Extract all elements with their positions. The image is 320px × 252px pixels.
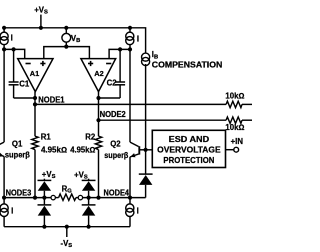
resistor RG bbox=[55, 185, 78, 201]
node C2 top junction bbox=[118, 47, 122, 51]
op-amp A1 bbox=[18, 59, 53, 92]
svg-text:10kΩ: 10kΩ bbox=[225, 123, 244, 132]
node rail VB bbox=[64, 26, 68, 30]
svg-text:superβ: superβ bbox=[104, 151, 128, 160]
svg-text:COMPENSATION: COMPENSATION bbox=[152, 60, 223, 69]
terminal RG left bbox=[51, 195, 55, 199]
current source I right-top bbox=[126, 32, 139, 45]
svg-text:NODE4: NODE4 bbox=[104, 189, 130, 198]
svg-text:+IN: +IN bbox=[231, 137, 244, 146]
current source I bottom-left bbox=[0, 198, 13, 227]
node Q1 collector junction bbox=[2, 47, 6, 51]
svg-text:I: I bbox=[11, 206, 13, 215]
node C2 bottom junction bbox=[96, 96, 100, 100]
resistor R2 bbox=[70, 132, 102, 154]
wire +Vs tick bbox=[40, 15, 42, 28]
svg-text:Q2: Q2 bbox=[110, 139, 121, 148]
svg-text:Q1: Q1 bbox=[12, 139, 23, 148]
wire Q2 emitter column bbox=[129, 157, 131, 198]
diode D3 (RG right to +Vs) bbox=[82, 179, 96, 205]
transistor Q2 bbox=[104, 139, 152, 160]
svg-text:I: I bbox=[137, 206, 139, 215]
svg-text:A1: A1 bbox=[30, 69, 39, 78]
node C1 bottom junction bbox=[33, 96, 37, 100]
ESD and overvoltage protection block bbox=[152, 130, 225, 167]
wire top supply rail bbox=[4, 28, 146, 54]
svg-text:-VS: -VS bbox=[61, 239, 73, 249]
capacitor C1 bbox=[9, 80, 30, 89]
node rail D4 bbox=[87, 225, 91, 229]
svg-text:4.95kΩ: 4.95kΩ bbox=[41, 146, 67, 155]
op-amp A2 bbox=[81, 59, 116, 92]
wire C2 branch bbox=[99, 49, 121, 98]
node +VS label right diode string bbox=[74, 170, 88, 180]
wire A1 output column bbox=[34, 92, 36, 198]
svg-text:superβ: superβ bbox=[5, 151, 30, 160]
wire A2 output column bbox=[98, 92, 100, 198]
svg-text:C2: C2 bbox=[107, 79, 118, 88]
current source I bottom-middle bbox=[126, 198, 139, 227]
wire NODE2 row bbox=[99, 119, 253, 121]
diode D1 (RG left to +Vs) bbox=[38, 179, 52, 205]
wire A2 inverting input bbox=[109, 49, 130, 58]
wire NODE4 row bbox=[83, 197, 146, 199]
node +VS top label bbox=[34, 5, 48, 15]
node NODE1 junction bbox=[33, 102, 37, 106]
node -VS label bbox=[61, 239, 73, 249]
node NODE2 junction bbox=[96, 118, 100, 122]
node D1 anode junction bbox=[42, 196, 46, 200]
svg-text:VB: VB bbox=[71, 34, 80, 44]
node C1 top junction bbox=[12, 47, 16, 51]
svg-text:ESD AND: ESD AND bbox=[169, 135, 210, 144]
source VB bbox=[62, 33, 80, 44]
node R2 bottom junction bbox=[96, 196, 100, 200]
wire right column upper bbox=[129, 28, 131, 142]
resistor 10k upper bbox=[225, 92, 244, 108]
transistor Q1 (clipped at left edge) bbox=[0, 139, 30, 159]
wire Q1 emitter column bbox=[3, 156, 5, 197]
svg-text:PROTECTION: PROTECTION bbox=[163, 156, 214, 165]
svg-text:I: I bbox=[11, 34, 13, 43]
node NODE4 bbox=[104, 189, 130, 198]
wire IB column down to Q2 base node bbox=[145, 64, 147, 150]
node R1 bottom junction bbox=[33, 196, 37, 200]
wire -Vs tick bbox=[66, 227, 68, 237]
node rail -Vs bbox=[65, 225, 69, 229]
node Q2 collector junction bbox=[128, 47, 132, 51]
node Q2 base junction bbox=[144, 148, 148, 152]
current source IB compensation bbox=[142, 50, 223, 69]
svg-text:IB: IB bbox=[152, 50, 158, 60]
node +VS label left diode string bbox=[42, 170, 56, 180]
wire +IN stub bbox=[226, 149, 234, 151]
wire noninverting inputs bbox=[44, 47, 90, 59]
capacitor C2 bbox=[107, 79, 126, 88]
wire bottom supply rail bbox=[4, 226, 130, 228]
wire left column (rail to Q1 collector) bbox=[3, 28, 5, 142]
terminal RG right bbox=[78, 195, 82, 199]
node rail-right bbox=[128, 26, 132, 30]
wire C1 branch bbox=[14, 49, 35, 98]
svg-text:A2: A2 bbox=[94, 69, 103, 78]
svg-text:+VS: +VS bbox=[42, 170, 56, 180]
svg-text:R1: R1 bbox=[41, 132, 52, 141]
svg-text:+VS: +VS bbox=[34, 5, 48, 15]
resistor R1 bbox=[32, 132, 67, 154]
wire A1 inverting input bbox=[4, 49, 25, 58]
diode D2 (-Vs to RG left) bbox=[38, 205, 52, 227]
wire VB stub bbox=[65, 28, 67, 47]
svg-text:OVERVOLTAGE: OVERVOLTAGE bbox=[157, 145, 221, 154]
node rail-left bbox=[2, 26, 6, 30]
svg-text:4.95kΩ: 4.95kΩ bbox=[70, 146, 95, 155]
node NODE4 junction bbox=[128, 196, 132, 200]
node NODE3 bbox=[6, 188, 32, 197]
svg-text:10kΩ: 10kΩ bbox=[225, 92, 244, 101]
svg-text:I: I bbox=[137, 35, 139, 44]
svg-text:NODE1: NODE1 bbox=[38, 96, 65, 105]
node NODE3 junction bbox=[2, 196, 6, 200]
node D3 anode junction bbox=[87, 196, 91, 200]
svg-text:NODE3: NODE3 bbox=[6, 188, 32, 197]
node rail +Vs bbox=[39, 26, 43, 30]
node NODE1 bbox=[38, 96, 65, 105]
wire NODE1 row bbox=[35, 103, 252, 105]
svg-text:RG: RG bbox=[62, 185, 73, 195]
diode D5 (Q2 base-emitter clamp) bbox=[139, 150, 153, 198]
node NODE2 bbox=[100, 110, 127, 119]
svg-text:C1: C1 bbox=[19, 80, 30, 89]
current source I left-top bbox=[0, 32, 13, 45]
svg-text:R2: R2 bbox=[85, 132, 96, 141]
node VB bottom junction bbox=[64, 45, 68, 49]
wire NODE3 row bbox=[4, 197, 51, 199]
diode D4 (-Vs to RG right) bbox=[82, 205, 96, 227]
terminal +IN bbox=[231, 137, 244, 152]
resistor 10k lower bbox=[225, 117, 244, 132]
svg-text:NODE2: NODE2 bbox=[100, 110, 127, 119]
node rail D2 bbox=[42, 225, 46, 229]
svg-text:+VS: +VS bbox=[74, 170, 88, 180]
